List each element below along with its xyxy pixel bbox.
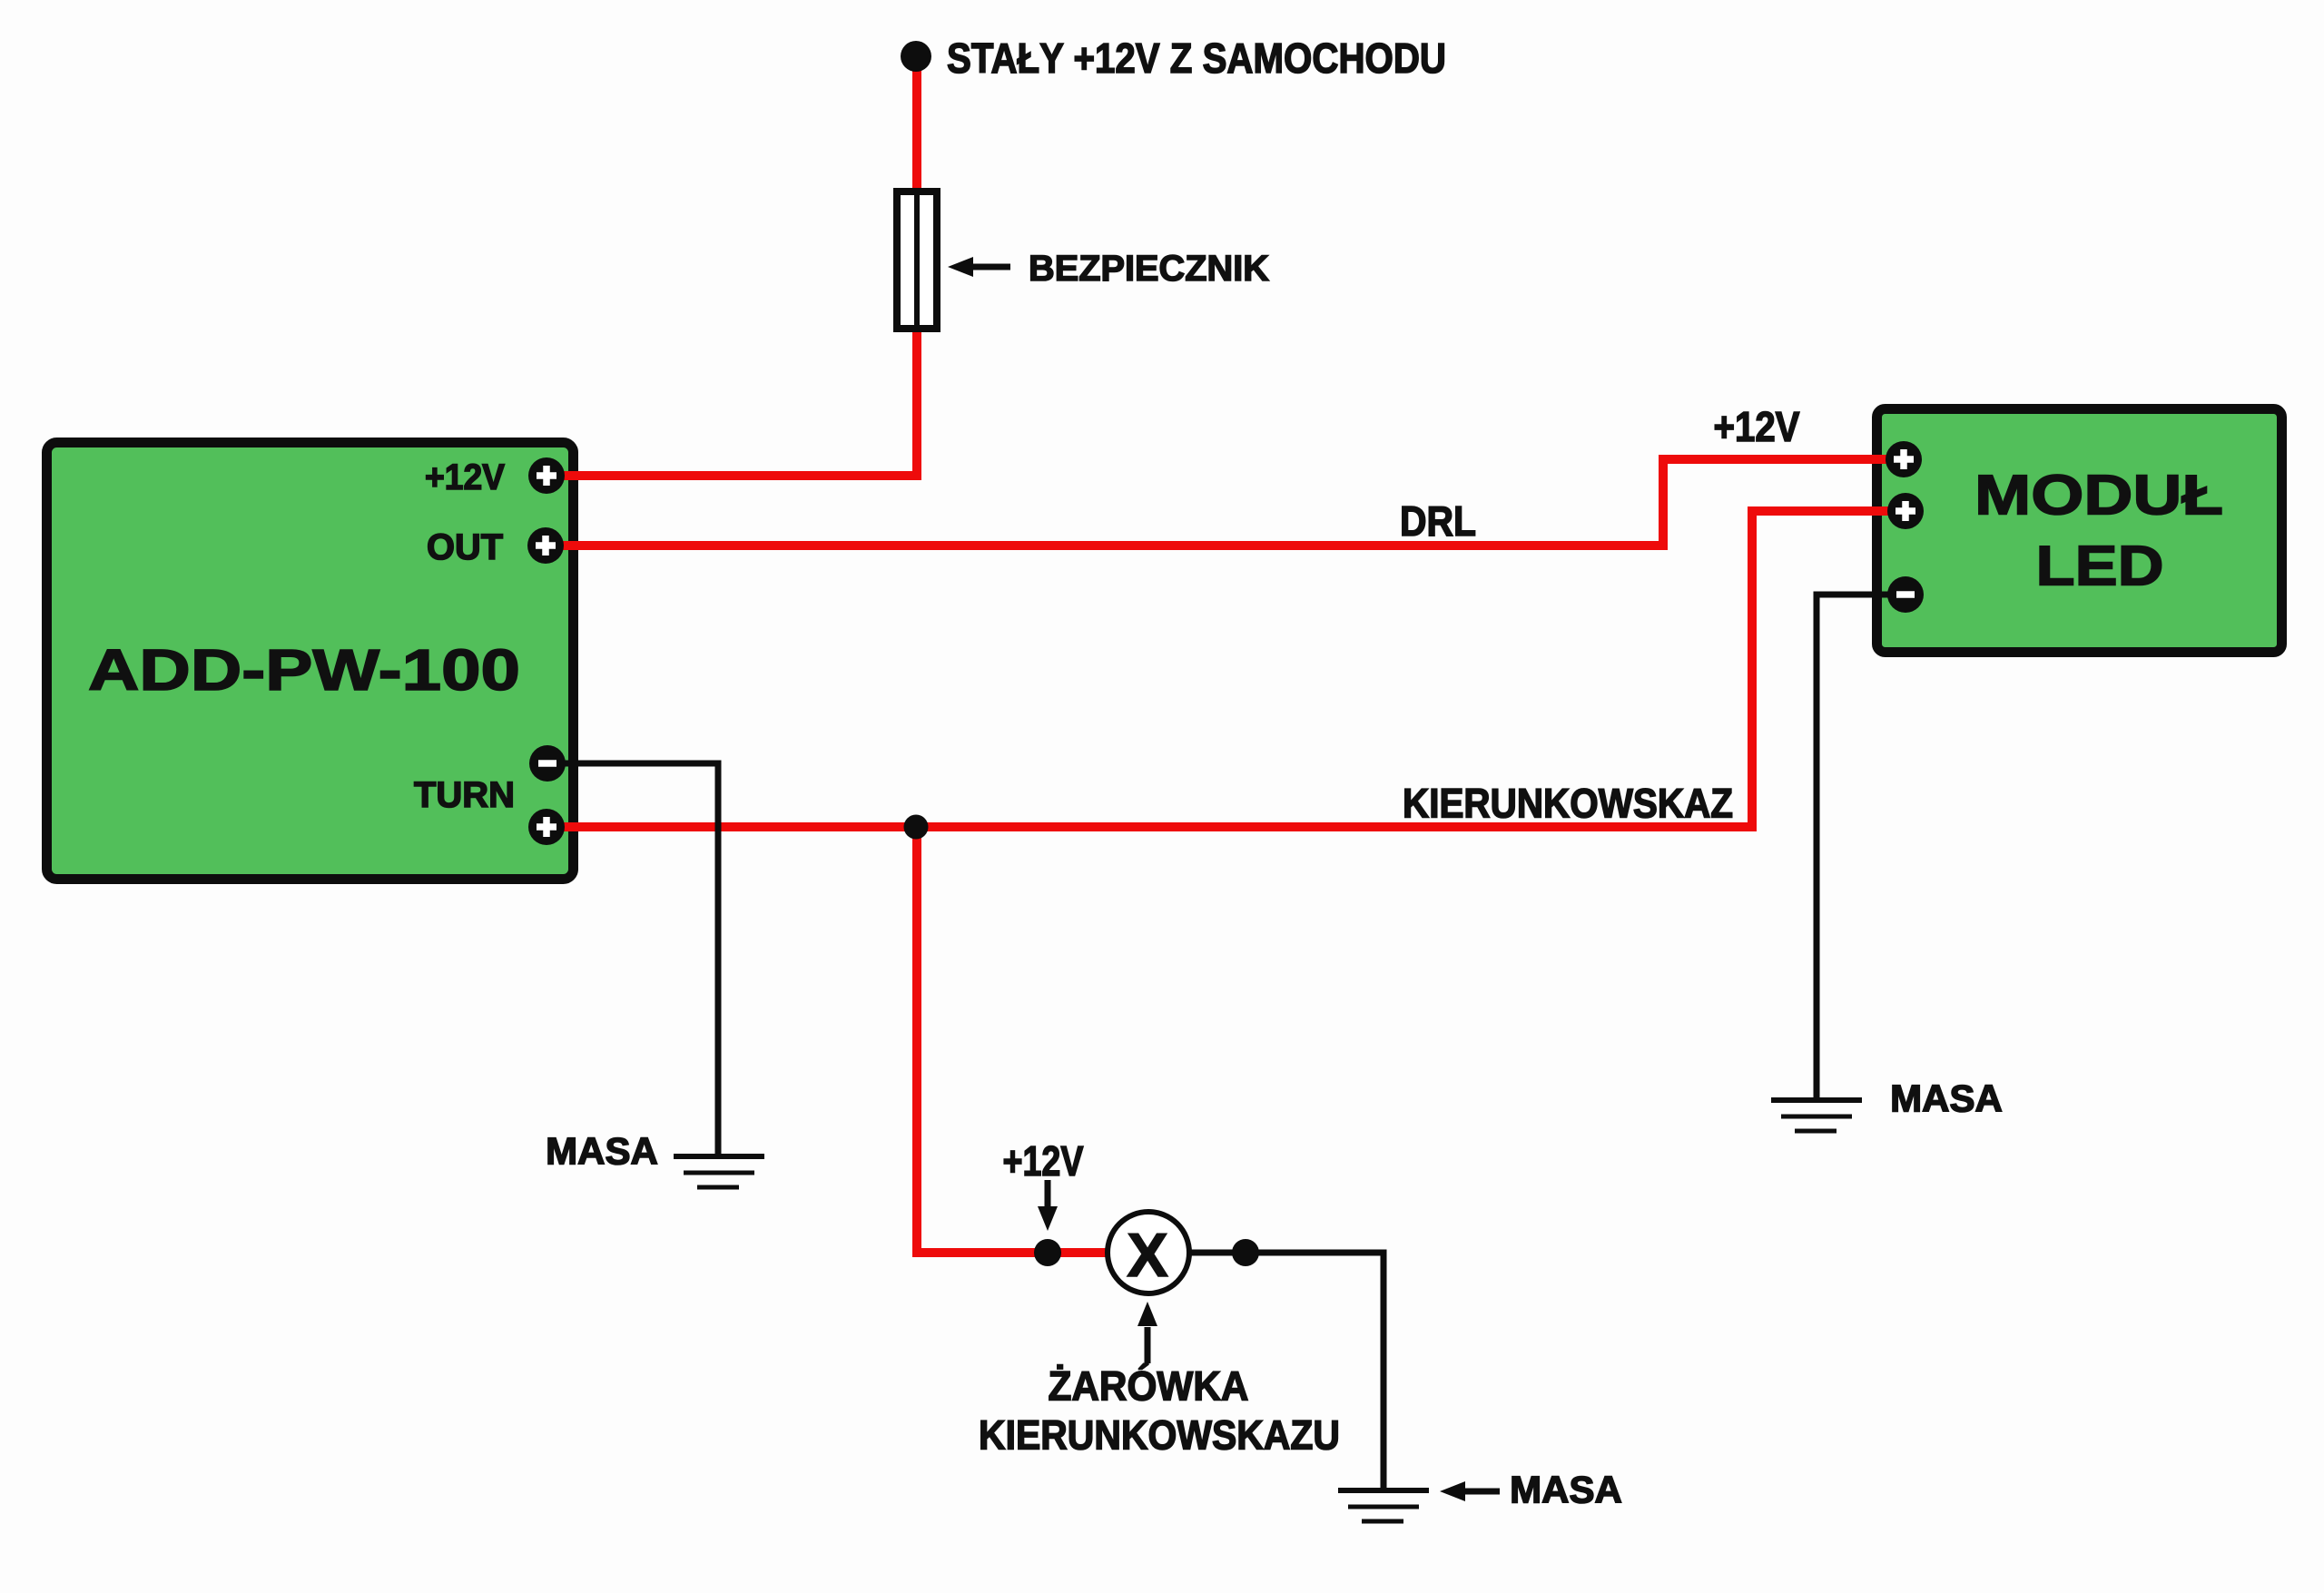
ground: bottom MASA (bulb) bbox=[1338, 1490, 1429, 1521]
svg-text:MASA: MASA bbox=[546, 1130, 658, 1173]
terminal: ADD-PW-100 TURN (-) bbox=[529, 745, 566, 782]
svg-text:DRL: DRL bbox=[1400, 497, 1476, 545]
terminal: MODUL LED +12V (+) bbox=[1886, 441, 1922, 477]
wire: KIERUNKOWSKAZ (red) from TURN + terminal to MODUL LED + terminal bbox=[547, 511, 1905, 827]
svg-text:BEZPIECZNIK: BEZPIECZNIK bbox=[1029, 249, 1269, 289]
svg-text:OUT: OUT bbox=[427, 527, 503, 567]
box U1 ADD-PW-100 module bbox=[47, 443, 574, 880]
node: junction on turn wire bbox=[904, 815, 929, 840]
wire: red branch from junction down to turn-signal bulb bbox=[917, 827, 1147, 1253]
svg-text:ADD-PW-100: ADD-PW-100 bbox=[88, 637, 520, 703]
arrow: +12V down to bulb wire bbox=[1038, 1180, 1058, 1231]
svg-text:+12V: +12V bbox=[425, 457, 505, 497]
node: junction at +12V feed to bulb bbox=[1034, 1239, 1061, 1266]
wire: DRL (red) from OUT terminal to MODUL LED + terminal bbox=[546, 459, 1904, 546]
svg-text:ŻARÓWKA: ŻARÓWKA bbox=[1049, 1363, 1249, 1410]
svg-text:STAŁY +12V Z SAMOCHODU: STAŁY +12V Z SAMOCHODU bbox=[947, 34, 1446, 82]
svg-text:MODUŁ: MODUŁ bbox=[1974, 465, 2223, 527]
fuse F1 BEZPIECZNIK bbox=[897, 192, 937, 329]
node: junction right of bulb bbox=[1232, 1239, 1259, 1266]
box U2 MODUL LED module bbox=[1877, 409, 2282, 653]
ground: left MASA bbox=[674, 1156, 764, 1187]
arrow: pointing to bottom ground bbox=[1440, 1481, 1500, 1501]
svg-text:TURN: TURN bbox=[414, 775, 515, 815]
svg-text:+12V: +12V bbox=[1714, 403, 1800, 450]
terminal: ADD-PW-100 +12V (+) bbox=[528, 457, 565, 494]
label: ZAROWKA KIERUNKOWSKAZU bbox=[979, 1363, 1340, 1459]
wire: black from bulb to bottom ground bbox=[1147, 1253, 1384, 1490]
wire: +12V supply (red) from ADD-PW-100 +12V terminal up to constant +12V node bbox=[547, 56, 917, 476]
ground: right MASA (MODUL LED) bbox=[1771, 1100, 1862, 1131]
svg-text:+12V: +12V bbox=[1003, 1137, 1084, 1185]
svg-text:MASA: MASA bbox=[1510, 1469, 1622, 1511]
wire: black from MODUL LED - terminal to right ground bbox=[1817, 595, 1905, 1100]
terminal: MODUL LED DRL (+) bbox=[1887, 493, 1924, 529]
svg-text:X: X bbox=[1127, 1221, 1167, 1290]
terminal: MODUL LED (-) bbox=[1887, 576, 1924, 613]
svg-text:KIERUNKOWSKAZ: KIERUNKOWSKAZ bbox=[1403, 781, 1733, 827]
lamp X1: turn signal bulb bbox=[1108, 1212, 1189, 1293]
svg-text:LED: LED bbox=[2036, 536, 2164, 598]
arrow: pointing to fuse bbox=[948, 257, 1010, 277]
svg-text:KIERUNKOWSKAZU: KIERUNKOWSKAZU bbox=[979, 1412, 1340, 1459]
wire: black from TURN - terminal to left ground bbox=[547, 763, 718, 1156]
svg-text:MASA: MASA bbox=[1890, 1077, 2003, 1120]
terminal: ADD-PW-100 TURN (+) bbox=[528, 809, 565, 845]
terminal: ADD-PW-100 OUT (+) bbox=[527, 527, 564, 564]
arrow: from ZAROWKA label up to bulb bbox=[1137, 1302, 1157, 1363]
node: constant +12V supply dot bbox=[901, 41, 931, 72]
